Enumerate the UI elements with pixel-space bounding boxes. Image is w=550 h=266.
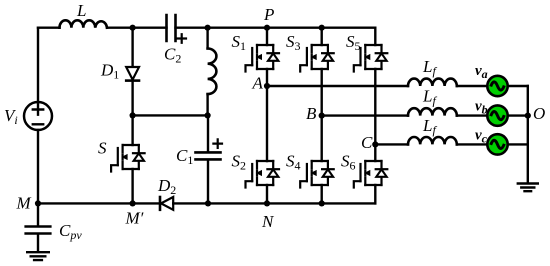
node C: [372, 141, 378, 147]
node S3 top junction: [319, 25, 325, 31]
svg-text:O: O: [533, 104, 545, 123]
inductor Lf phase C: [408, 137, 457, 144]
diode D1: [131, 28, 133, 67]
wire node A to S2: [266, 86, 268, 161]
svg-text:C: C: [361, 133, 373, 152]
wire bottom rail M to D2: [38, 202, 160, 204]
node M': [130, 200, 136, 206]
inductor Lf phase B: [408, 108, 457, 115]
ground right: [518, 184, 538, 192]
mosfet S1: [246, 45, 280, 72]
wire right rail: [527, 86, 529, 182]
wire Vi bottom to node M: [37, 130, 39, 203]
svg-text:N: N: [261, 212, 275, 231]
node N: [264, 200, 270, 206]
svg-text:L: L: [76, 1, 86, 20]
wire Lf C to source vc: [457, 143, 487, 145]
ground left: [27, 252, 49, 260]
node A: [264, 83, 270, 89]
inductor coil vertical: [208, 49, 217, 95]
wire phase A from node A: [267, 85, 408, 87]
node M: [35, 200, 41, 206]
mosfet S5: [354, 45, 388, 72]
wire S6 to bottom rail corner: [374, 185, 376, 203]
wire middle node to mosfet S: [131, 115, 133, 145]
wire Lf A to source va: [457, 85, 487, 87]
wire left branch from Vi top: [37, 28, 39, 102]
wire bottom rail D2 to bottom-right corner: [173, 202, 375, 204]
svg-text:A: A: [252, 74, 264, 93]
wire top rail left segment: [38, 27, 60, 29]
mosfet S2: [246, 161, 280, 188]
wire phase C from node C: [375, 143, 408, 145]
wire top rail C2 to top-right corner: [176, 27, 376, 29]
node O: [525, 113, 531, 119]
capacitor C2 plates: [167, 15, 176, 41]
C2 plus sign: [177, 34, 186, 43]
node B: [319, 113, 325, 119]
node D1-S junction: [130, 112, 136, 118]
node C1 bottom junction: [205, 200, 211, 206]
node S4 bottom junction: [319, 200, 325, 206]
source vc: [487, 134, 507, 154]
wire coil bottom to middle wire: [206, 94, 208, 115]
wire S2 to node N: [266, 185, 268, 203]
node P: [264, 25, 270, 31]
inductor Lf phase A: [408, 79, 457, 86]
wire middle to C1: [207, 115, 209, 151]
wire P to S1: [266, 28, 268, 45]
wire vc to right rail: [508, 143, 528, 145]
wire node C to S6: [374, 144, 376, 161]
node C2-coil junction: [205, 25, 211, 31]
svg-text:B: B: [306, 104, 317, 123]
wire S5 to node C: [374, 69, 376, 144]
wire top rail L to C2 left plate: [107, 27, 167, 29]
wire top-right corner to S5: [374, 28, 376, 45]
mosfet S4: [300, 161, 334, 188]
wire phase B from node B: [322, 114, 408, 116]
capacitor Cpv plates: [26, 227, 51, 234]
svg-text:S: S: [98, 139, 107, 158]
mosfet S3: [300, 45, 334, 72]
wire top rail to S3: [321, 28, 323, 45]
wire node B to S4: [321, 116, 323, 161]
mosfet S6: [354, 161, 388, 188]
inductor L: [60, 20, 108, 27]
svg-text:P: P: [263, 5, 274, 24]
mosfet S: [111, 145, 145, 172]
wire Lf B to source vb: [457, 114, 487, 116]
wire C1 to bottom rail: [207, 161, 209, 204]
diode D2: [159, 197, 162, 210]
capacitor C1 plates: [196, 152, 221, 159]
source vb: [487, 105, 507, 125]
wire vb to node O: [508, 114, 528, 116]
node L-D1-C2 junction: [130, 25, 136, 31]
C1 plus sign: [213, 139, 222, 148]
wire va to right rail: [508, 85, 528, 87]
voltage source Vi: [24, 102, 52, 130]
source va: [487, 76, 507, 96]
wire S1 to node A: [266, 69, 268, 86]
svg-text:M: M: [16, 194, 32, 213]
wire S3 to node B: [321, 69, 323, 116]
wire Cpv to ground: [37, 235, 39, 251]
node coil-C1 junction: [205, 112, 211, 118]
wire M to Cpv: [37, 203, 39, 225]
wire coil branch top: [206, 28, 208, 49]
wire middle horizontal: [133, 114, 208, 116]
wire S4 to bottom rail: [321, 185, 323, 203]
wire mosfet S to node M': [131, 169, 133, 203]
svg-text:M′: M′: [125, 209, 144, 228]
wire D1 to middle node: [131, 81, 133, 116]
